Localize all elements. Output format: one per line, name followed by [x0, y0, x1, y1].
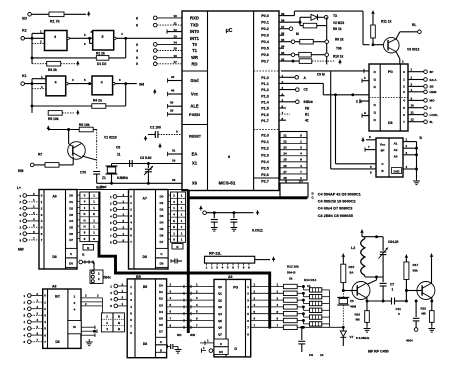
wire out: [367, 300, 391, 303]
IC A9 right num 7: [247, 332, 249, 336]
wire bus row 0: [167, 283, 214, 289]
IC U3 body: [376, 138, 403, 177]
svg-text:6.5MHz: 6.5MHz: [117, 176, 128, 180]
U2 right pin 1: [408, 76, 437, 82]
wire thick bus branch: [168, 190, 307, 334]
label C14: [388, 240, 399, 244]
IC A9 left label 2: [218, 298, 222, 302]
node input B5: [110, 225, 129, 231]
node RM input terminal: [18, 163, 34, 173]
box keys: [90, 270, 103, 284]
pin label P1.3: [261, 94, 269, 98]
power +V: [76, 110, 80, 115]
svg-text:H: H: [83, 218, 85, 222]
svg-text:INT1: INT1: [190, 36, 200, 41]
pin label P0.1: [261, 21, 269, 25]
capacitor C1: [144, 126, 182, 149]
svg-text:M8: M8: [422, 312, 426, 316]
node input terminal 1: [136, 23, 182, 27]
svg-text:D1: D1: [159, 290, 163, 294]
IC A7 left num 4: [130, 221, 132, 225]
resistor ladder2 3: [303, 307, 329, 313]
U3 right pins: [403, 138, 417, 169]
wire A-grid 4: [77, 219, 80, 221]
svg-text:R3 2k: R3 2k: [48, 68, 57, 72]
svg-text:L2: L2: [351, 246, 355, 250]
U2 right pin 0: [408, 68, 433, 74]
svg-text:P0.7: P0.7: [261, 60, 269, 64]
resistor R16: [355, 301, 370, 326]
capacitor C9: [298, 327, 323, 357]
svg-text:9: 9: [136, 56, 138, 60]
svg-text:R15: R15: [349, 265, 355, 269]
wire feedback: [109, 38, 126, 58]
link grid row 5: [280, 164, 307, 168]
resistor R17: [404, 255, 419, 303]
IC A9 left label 1: [218, 292, 222, 296]
svg-text:R8 1k: R8 1k: [333, 27, 342, 31]
IC A6 right label 6: [69, 232, 73, 236]
wire A8 low1: [81, 325, 95, 329]
grid B row 6: [171, 231, 186, 236]
svg-text:4: 4: [101, 81, 103, 85]
U2 right pin 5: [408, 104, 432, 110]
pin label P2.0: [261, 134, 269, 138]
capacitor C2: [130, 160, 133, 167]
wire base: [372, 43, 385, 46]
svg-text:D4: D4: [159, 310, 163, 314]
node input A1: [20, 198, 40, 204]
svg-text:13: 13: [174, 35, 178, 39]
svg-text:C1 100: C1 100: [150, 126, 161, 130]
node input B7: [110, 238, 129, 244]
wire collector V6: [430, 254, 434, 285]
wire emitter V5: [366, 297, 369, 303]
svg-text:Q4: Q4: [218, 312, 222, 316]
svg-text:C9: C9: [309, 353, 313, 357]
IC U1 MCS-51 body: [182, 11, 279, 191]
annotation line 3: [318, 207, 353, 211]
annotation line 1: [318, 193, 361, 197]
svg-text:B: B: [118, 327, 120, 331]
IC A9 left label 3: [218, 305, 222, 309]
power +V: [87, 12, 91, 17]
svg-text:E 13: E 13: [356, 99, 363, 103]
wire B-grid 5: [168, 226, 171, 228]
wire A-grid 2: [77, 207, 80, 209]
U2 right digit 4: [403, 99, 405, 103]
label B: [420, 136, 423, 140]
wire P1.1 step: [279, 83, 369, 96]
svg-text:R2 2k: R2 2k: [96, 52, 105, 56]
svg-text:P2.4: P2.4: [261, 160, 270, 164]
svg-text:D0: D0: [160, 195, 164, 199]
U2 left pin E: [356, 99, 369, 104]
IC A9 text: [233, 286, 238, 352]
svg-text:WR: WR: [191, 55, 198, 60]
wire A8 low3: [81, 333, 95, 337]
IC A8 left num 6: [44, 333, 46, 337]
U2 right pin 7: [408, 118, 433, 124]
svg-text:R12 16k: R12 16k: [287, 265, 299, 269]
U2 left label 0: [374, 70, 377, 74]
IC A7 right label 5: [160, 227, 164, 231]
wire: [48, 128, 79, 131]
svg-text:23: 23: [283, 146, 287, 150]
pin label P2.6: [261, 173, 269, 177]
pin label P0.6: [261, 53, 269, 57]
node input terminal 2: [136, 43, 182, 47]
ground: [413, 178, 420, 185]
grid A row 3: [80, 212, 99, 217]
resistor ladder1 4: [283, 312, 304, 316]
node input A7: [20, 236, 40, 242]
IC A7 right label 1: [160, 201, 164, 205]
svg-text:5: 5: [102, 35, 104, 39]
pin label P2.5: [261, 167, 269, 171]
wire RP to power: [255, 257, 276, 262]
svg-text:Q1: Q1: [218, 292, 222, 296]
svg-text:P2.2: P2.2: [261, 147, 269, 151]
pin PSEN: [168, 109, 200, 117]
gate D4: [92, 76, 115, 95]
svg-text:EA: EA: [192, 152, 198, 157]
pin label P0.3: [261, 34, 269, 38]
link grid row 6: [280, 170, 307, 174]
resistor ladder2 2: [303, 300, 329, 306]
pin label INT0: [190, 29, 200, 34]
node terminal: [79, 260, 94, 264]
resistor ladder1 0: [283, 284, 304, 288]
svg-text:D7: D7: [160, 240, 164, 244]
U2 left label 2: [374, 85, 377, 89]
svg-text:F: F: [430, 106, 432, 110]
svg-text:D3: D3: [159, 303, 163, 307]
node input terminal 5: [136, 62, 182, 66]
pin label T0: [192, 42, 198, 47]
svg-text:0.C011: 0.C011: [252, 229, 263, 233]
resistor R5: [48, 111, 62, 121]
svg-text:D3: D3: [69, 213, 73, 217]
wire bus row 3: [167, 303, 214, 309]
pin number 11: [174, 21, 178, 25]
node P1.2 terminal: [279, 88, 308, 92]
svg-text:A9: A9: [228, 275, 232, 279]
pin ALE: [168, 101, 199, 109]
wire thick bus main: [99, 192, 270, 328]
link grid C: [101, 313, 124, 332]
wire ladder 3: [251, 303, 284, 307]
IC right column divider: [254, 177, 279, 179]
svg-text:RD: RD: [192, 61, 198, 66]
svg-text:D8: D8: [52, 255, 56, 259]
grid A row 6: [80, 231, 99, 236]
svg-text:D0: D0: [219, 350, 223, 354]
svg-text:Q0: Q0: [218, 285, 222, 289]
svg-text:D0: D0: [69, 262, 73, 266]
wire P0.3 stub: [279, 34, 284, 36]
svg-text:30: 30: [170, 101, 174, 105]
pin label P1.6: [261, 113, 269, 117]
IC U3 inner box: [392, 168, 402, 174]
svg-text:T08: T08: [336, 47, 342, 51]
svg-text:Q5: Q5: [218, 319, 222, 323]
U2 right digit 5: [403, 106, 405, 110]
svg-text:DXE: DXE: [394, 169, 400, 173]
wire P1.3 stub: [279, 95, 285, 97]
svg-text:0: 0: [136, 62, 138, 66]
IC A9 left label 5: [218, 319, 222, 323]
IC A6 left num 3: [41, 213, 43, 217]
box R2: [172, 244, 183, 250]
svg-text:4: 4: [136, 49, 138, 53]
wire vertical: [326, 17, 328, 64]
node terminal: [199, 206, 206, 215]
IC A8 left num 0: [44, 294, 46, 298]
resistor ladder2 4: [303, 314, 329, 320]
wire: [93, 130, 97, 142]
ground: [231, 225, 238, 232]
node input A4: [20, 217, 40, 223]
svg-text:SA A: SA A: [430, 78, 438, 82]
IC A10 left num 5: [130, 318, 132, 322]
node input C1: [24, 298, 43, 304]
IC A10 left num 7: [130, 331, 132, 335]
svg-text:H: H: [173, 225, 175, 229]
svg-text:8: 8: [228, 155, 230, 159]
IC A10 inner box: [156, 337, 167, 352]
pin number 14: [174, 41, 178, 45]
IC A8 designator: [52, 285, 56, 289]
IC A8 left num 2: [44, 307, 46, 311]
annotation line 2: [318, 200, 356, 204]
power +V: [76, 61, 80, 66]
IC A7 left num 1: [130, 201, 132, 205]
svg-text:K1: K1: [22, 74, 27, 78]
U2 left pin H: [362, 111, 369, 118]
grid A row 5: [80, 225, 99, 230]
grid A row 0: [80, 194, 99, 199]
pin number 39: [281, 12, 285, 16]
svg-text:INT0: INT0: [190, 29, 200, 34]
node input D3: [110, 302, 127, 308]
svg-text:D8: D8: [55, 340, 59, 344]
wire A8 low2: [81, 329, 97, 333]
wire B-grid 1: [168, 200, 171, 202]
svg-text:64B/w: 64B/w: [304, 100, 314, 104]
svg-text:RXD: RXD: [190, 15, 199, 20]
node input C3: [24, 312, 43, 318]
svg-text:A8: A8: [52, 285, 56, 289]
IC A6 left num 2: [41, 206, 43, 210]
IC A9 left label 6: [218, 326, 222, 330]
svg-text:RM: RM: [18, 169, 23, 173]
IC A6 left num 0: [41, 194, 43, 198]
svg-text:D7: D7: [159, 330, 163, 334]
resistor R12: [371, 15, 392, 45]
svg-text:Z3: Z3: [350, 299, 354, 303]
node input C5: [24, 325, 43, 331]
pin Gnd: [168, 75, 199, 83]
U2 right digit 0: [403, 70, 405, 74]
svg-text:2k: 2k: [289, 277, 293, 281]
wire: [32, 75, 46, 113]
pin Vcc: [168, 89, 199, 97]
svg-text:Vcc: Vcc: [380, 143, 386, 147]
pin label P2.7: [261, 180, 269, 184]
wire: [206, 211, 253, 214]
svg-text:H: H: [173, 219, 175, 223]
IC A7 inner box: [156, 248, 169, 267]
box below P2: [280, 179, 308, 197]
svg-text:8P: 8P: [381, 149, 385, 153]
svg-text:D2: D2: [159, 297, 163, 301]
wire ladder 5: [251, 317, 284, 321]
resistor ladder1 6: [283, 325, 304, 329]
svg-text:P2.3: P2.3: [261, 153, 269, 157]
svg-text:P0.1: P0.1: [261, 21, 269, 25]
link grid A: [80, 192, 99, 242]
svg-text:TXD: TXD: [190, 23, 198, 28]
grid B row 3: [171, 212, 186, 217]
capacitor C5: [211, 213, 218, 225]
pin label P1.5: [261, 107, 269, 111]
IC A10 left num 4: [130, 311, 132, 315]
resistor R6: [79, 123, 93, 132]
svg-text:SM: SM: [139, 82, 144, 86]
wire gnd rail: [97, 182, 182, 189]
svg-text:D2: D2: [69, 206, 73, 210]
crystal Z1: [102, 164, 128, 184]
IC A6 right label 5: [69, 225, 73, 229]
wire bus row 5: [167, 317, 214, 323]
wire collector: [68, 130, 70, 144]
svg-text:R18: R18: [421, 307, 427, 311]
IC A9 right num 3: [247, 305, 249, 309]
svg-text:C64-20: C64-20: [388, 240, 399, 244]
svg-text:B1: B1: [305, 113, 309, 117]
IC A7 left num 2: [130, 208, 132, 212]
svg-text:R13 R14: R13 R14: [304, 278, 316, 282]
pin number P1 4: [282, 92, 284, 96]
pin label P0.4: [261, 40, 270, 44]
U2 right digit 7: [403, 120, 405, 124]
svg-text:R4 2n: R4 2n: [93, 99, 102, 103]
IC A8 left num 5: [44, 327, 46, 331]
resistor pack RP-12L: [205, 251, 255, 263]
IC A6 right label 2: [69, 206, 73, 210]
U2 left label b3: [0, 0, 1, 1]
gate D2: [93, 31, 116, 51]
svg-text:0: 0: [398, 312, 400, 316]
pin number P1 6: [282, 105, 284, 109]
IC A8 left num 3: [44, 314, 46, 318]
svg-text:RESET: RESET: [189, 135, 202, 139]
svg-text:P0.0: P0.0: [261, 14, 269, 18]
capacitor C13 trimmer: [379, 237, 389, 277]
U2 left label b0: [374, 103, 377, 107]
svg-text:24: 24: [283, 152, 287, 156]
IC A7 text: [143, 197, 147, 260]
wire DAC out: [268, 326, 343, 329]
wire ladder rail: [329, 290, 331, 327]
svg-text:A7: A7: [143, 197, 147, 201]
IC A9 left label 4: [218, 312, 222, 316]
svg-text:X0: X0: [192, 181, 198, 186]
wire to U3 pin5: [334, 93, 376, 163]
node SD input terminal: [22, 13, 31, 21]
svg-text:MW: MW: [18, 248, 24, 252]
svg-text:6M: 6M: [356, 318, 361, 322]
U2 right pin 6: [408, 111, 438, 117]
IC A10 right label 4: [159, 310, 163, 314]
svg-text:B: B: [118, 315, 120, 319]
svg-text:D5: D5: [159, 317, 163, 321]
power +V: [360, 230, 364, 235]
svg-text:B5: B5: [143, 285, 147, 289]
IC A8 text: [55, 295, 60, 345]
svg-text:A6: A6: [52, 195, 56, 199]
IC A10 right label 1: [159, 290, 163, 294]
svg-text:C2: C2: [304, 88, 308, 92]
resistor pack pins: [206, 263, 250, 269]
pin number 38: [281, 19, 285, 23]
wire ladder 0: [251, 283, 284, 287]
IC A10 left num 0: [130, 285, 132, 289]
IC A10 designator: [136, 275, 141, 279]
wire A-grid 5: [77, 225, 80, 227]
svg-text:PG: PG: [233, 286, 238, 290]
IC A6 left num 5: [41, 225, 43, 229]
pin number P1 7: [282, 111, 284, 115]
svg-text:P1.7: P1.7: [261, 119, 269, 123]
svg-text:18: 18: [172, 178, 176, 182]
link grid row 1: [280, 140, 307, 144]
svg-text:P0.2: P0.2: [261, 27, 269, 31]
IC A9 inner box: [214, 339, 228, 354]
wire A-grid 3: [77, 213, 80, 215]
wire U3 out rail: [415, 142, 418, 178]
wire bus row 2: [167, 296, 214, 302]
U2 right pin 3: [408, 88, 437, 94]
IC A6 inner box: [66, 248, 78, 267]
node input D0: [110, 282, 127, 288]
svg-text:MCS-51: MCS-51: [219, 181, 236, 186]
IC A7 left num 3: [130, 214, 132, 218]
IC A6 left num 7: [41, 238, 43, 242]
pin number 16: [174, 54, 178, 58]
pin number P1 3: [282, 86, 284, 90]
capacitor C8: [116, 146, 121, 157]
svg-text:19: 19: [172, 159, 176, 163]
grid A row 4: [80, 218, 99, 223]
IC U1 text: [219, 28, 236, 186]
grid B row 0: [171, 194, 186, 199]
pin label P0.2: [261, 27, 269, 31]
label XB4c: [103, 276, 111, 280]
IC A6 left num 6: [41, 232, 43, 236]
wire A-grid 6: [77, 231, 80, 233]
pin number 36: [281, 32, 285, 36]
svg-text:F: F: [364, 76, 366, 80]
wire to INT1: [116, 32, 182, 40]
label MW: [18, 248, 24, 252]
IC A10 right label 3: [159, 303, 163, 307]
svg-text:D4: D4: [160, 221, 164, 225]
gate D1: [45, 31, 70, 51]
svg-text:D2: D2: [160, 208, 164, 212]
svg-text:HEM: HEM: [430, 90, 437, 94]
